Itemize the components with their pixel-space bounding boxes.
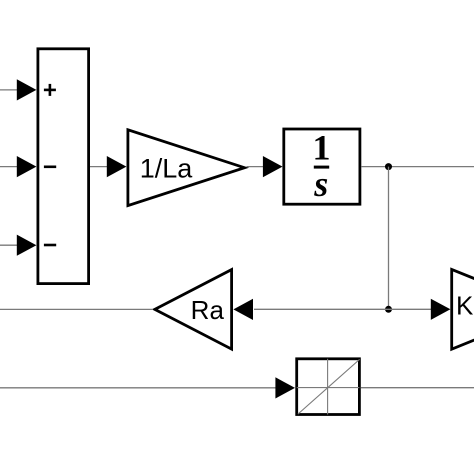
svg-text:1: 1 bbox=[313, 127, 331, 167]
integrator fraction bar bbox=[314, 166, 329, 169]
wire bottom input from left edge bbox=[0, 387, 277, 389]
sum sign minus bottom bbox=[44, 244, 56, 247]
svg-text:K: K bbox=[456, 290, 474, 320]
wire Ra output to left edge bbox=[0, 308, 153, 310]
junction dot top bbox=[385, 163, 392, 170]
wire branch to gain K bbox=[389, 308, 433, 310]
arrowhead into gain K bbox=[431, 299, 451, 320]
rate limiter axis horizontal bbox=[297, 387, 360, 389]
wire gain to integrator bbox=[247, 166, 265, 168]
wire input 1 bbox=[0, 89, 18, 91]
arrowhead into integrator bbox=[263, 156, 283, 177]
rate limiter block bbox=[297, 359, 360, 415]
arrowhead into gain Ra bbox=[233, 299, 253, 320]
gain triangle K (clipped at right edge) bbox=[452, 269, 474, 349]
wire integrator output to right edge bbox=[361, 166, 474, 168]
wire input 2 bbox=[0, 166, 18, 168]
wire vertical branch bbox=[388, 167, 390, 310]
arrowhead input 2 bbox=[17, 156, 37, 177]
wire input 3 bbox=[0, 244, 18, 246]
rate limiter axis vertical bbox=[327, 359, 329, 415]
svg-text:Ra: Ra bbox=[191, 295, 225, 325]
rate limiter ramp diagonal bbox=[298, 359, 360, 414]
arrowhead into gain 1/La bbox=[107, 156, 127, 177]
svg-text:s: s bbox=[313, 164, 328, 204]
arrowhead into rate limiter bbox=[275, 377, 295, 398]
junction dot bottom bbox=[385, 306, 392, 313]
wire sum output bbox=[90, 166, 108, 168]
arrowhead input 1 bbox=[17, 79, 37, 100]
wire rate limiter output to right edge bbox=[361, 387, 474, 389]
sum block bbox=[38, 49, 89, 284]
sum sign minus middle bbox=[44, 166, 56, 169]
sum sign plus bbox=[44, 84, 56, 96]
arrowhead input 3 bbox=[17, 235, 37, 256]
gain triangle 1/La bbox=[128, 130, 245, 206]
svg-text:1/La: 1/La bbox=[140, 154, 194, 184]
wire branch to gain Ra bbox=[254, 308, 389, 310]
integrator block U 1/s bbox=[284, 129, 360, 204]
gain triangle Ra (points left) bbox=[155, 270, 232, 350]
